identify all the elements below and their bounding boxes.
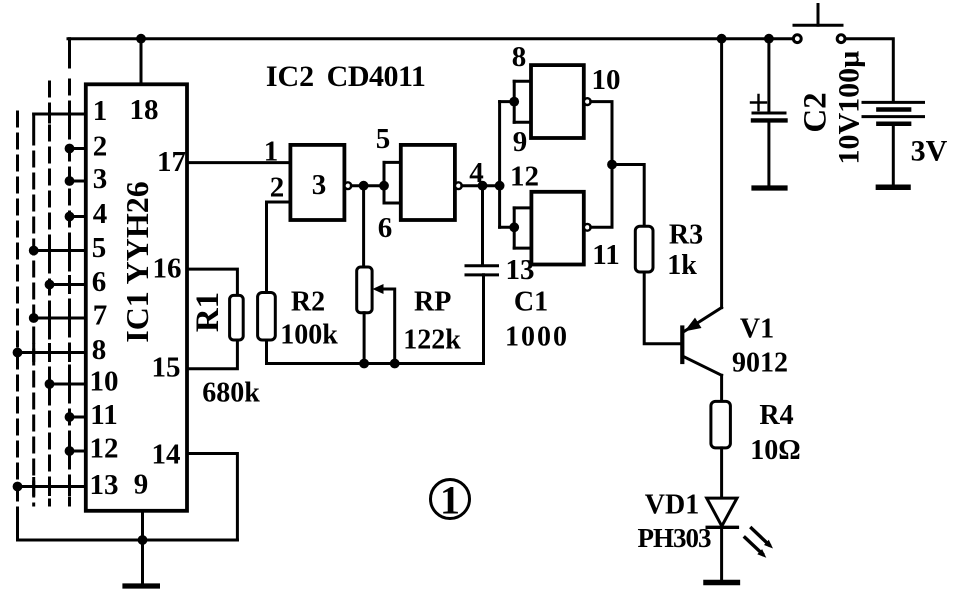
svg-text:10Ω: 10Ω [750,435,800,466]
wire pin7 [34,317,86,320]
transistor V1 base bar [680,328,684,363]
tick crossing pin8 line4 [68,345,71,361]
switch S actuator bar [794,24,842,27]
svg-text:15: 15 [152,352,181,384]
node pin8 tap [13,348,23,358]
gate U2B output bubble [455,182,462,189]
tick crossing pin13 line2 [32,479,35,495]
wire junction to R3 [612,165,644,227]
node pin3 tap [65,176,75,186]
svg-text:RP: RP [414,287,451,318]
ground symbol under battery [878,185,908,191]
capacitor C1 plate top [466,264,498,267]
wire U2B input stub 6 [384,202,401,205]
touch line 2 (dashed, x=33.7) [32,114,35,127]
node pin11 tap [65,412,75,422]
ground symbol under IC1 [141,540,144,583]
tick crossing pin7 line4 [68,310,71,326]
transistor V1 collector slant [683,357,721,376]
svg-text:1: 1 [264,136,279,168]
node pin13 tap [13,482,23,492]
svg-text:10V100µ: 10V100µ [833,51,866,165]
wire U2D input stub 12 [514,206,531,209]
node pin10 tap [45,379,55,389]
wire U2D input stub 13 [514,247,531,250]
wire U2B input stub 5 [384,161,401,164]
ground symbol under C2 [754,185,785,190]
node pin6 tap [45,280,55,290]
wire pin8 [18,351,86,354]
gate U2D output bubble [584,224,591,231]
svg-text:4: 4 [469,157,484,189]
wire pin5 [34,249,86,252]
wire RC network bottom [267,362,484,365]
ground symbol under LED [706,580,737,586]
svg-text:6: 6 [378,212,393,244]
wire U2C input stub 8 [514,80,531,83]
node U2C bracket junction [509,97,519,107]
wire pin10 [50,383,86,386]
svg-text:4: 4 [93,198,108,230]
tick crossing pin5 line3 [48,243,51,259]
svg-text:122k: 122k [403,325,461,356]
node C1 branch junction [478,181,488,191]
wire R4 to LED [720,448,723,498]
capacitor C1 top lead [481,186,484,266]
tick crossing pin1 line4 [68,106,71,122]
svg-text:9: 9 [513,126,528,158]
svg-text:11: 11 [90,399,117,431]
svg-text:13: 13 [506,254,535,286]
IC1 YYH26 body [86,84,187,511]
wire pin15 to R1 bottom [187,340,237,369]
svg-text:3: 3 [312,169,327,201]
svg-text:R4: R4 [759,400,793,431]
tick crossing pin8 line2 [32,345,35,361]
svg-text:13: 13 [90,469,119,501]
capacitor C1 plate bottom [466,273,498,276]
switch S contact right [837,35,845,43]
battery GB plate 1 long [863,101,924,104]
node U2B bracket junction [379,181,389,191]
wire pin6 [50,283,86,286]
touch line 4 (dashed, x=69.5 from rail) [68,39,71,67]
node ground junction [138,535,148,545]
svg-text:10: 10 [592,64,621,96]
svg-text:VD1: VD1 [645,490,699,521]
node net4 tee junction [495,181,505,191]
wire U2B input bracket [383,162,386,203]
svg-text:680k: 680k [202,378,260,409]
node RP bottom junction [359,359,369,369]
gate U2C body [531,65,584,138]
LED light arrow 1 [752,528,770,545]
capacitor C2 bottom lead [767,120,770,185]
node RP branch junction [359,181,369,191]
resistor R2 body [258,293,276,341]
svg-text:100k: 100k [280,320,338,351]
tick crossing pin1 line3 [48,106,51,122]
wire net4 vertical to gate C and D brackets [498,102,501,228]
wire pin18 to rail [140,39,143,85]
potentiometer RP body [357,267,372,313]
gate U2C output bubble [584,98,591,105]
wire U2D output pin 11 [591,165,612,228]
svg-text:18: 18 [130,94,159,126]
wire junction down to RP top [362,186,365,267]
wire pin3 [70,180,86,183]
svg-text:17: 17 [157,146,186,178]
svg-text:2: 2 [270,172,285,204]
node pin7 tap [29,313,39,323]
wire U2C input stub 9 [514,121,531,124]
RP wiper arrowhead [373,284,384,294]
svg-text:16: 16 [153,253,182,285]
wire pin14 to ground wire [187,454,237,541]
wire R3 to base [644,272,680,344]
wire net4 jog to U2C bracket [500,100,515,103]
svg-text:9: 9 [134,469,149,501]
svg-text:10: 10 [90,366,119,398]
wire U2B output (net 4) [462,184,500,187]
transistor V1 emitter lead from rail [720,39,723,308]
svg-text:IC1 YYH26: IC1 YYH26 [119,181,155,342]
svg-text:1000: 1000 [505,322,569,353]
tick crossing pin10 line4 [68,376,71,392]
svg-text:1: 1 [440,478,460,523]
svg-text:1: 1 [93,95,108,127]
wire pin2 [70,147,86,150]
wire R2 bottom to RC bottom wire [265,340,268,364]
wire U2A output to U2B input bracket [351,184,384,187]
svg-text:5: 5 [92,232,107,264]
capacitor C2 plate top [753,112,785,115]
resistor R4 body [711,401,731,448]
transistor V1 emitter arrowhead [685,318,702,332]
touch line 1 (dashed, x=17.5) [16,112,19,528]
wire pin1 [34,113,86,116]
svg-text:12: 12 [510,161,539,193]
wire pin4 [70,215,86,218]
wire pin11 [70,416,86,419]
wire pin17 to gate input 1 [187,161,290,164]
svg-text:R1: R1 [190,292,226,332]
wire pin13 [18,485,86,488]
wire top supply rail [68,37,794,40]
capacitor C2 polarity plus [751,95,766,110]
wire RP wiper [377,289,395,364]
capacitor C2 top lead [767,39,770,113]
LED light arrow 2 [745,538,763,555]
svg-text:1k: 1k [667,250,697,281]
wire rail right of switch to battery [845,39,893,101]
capacitor C2 plate bottom [753,118,786,122]
svg-text:9012: 9012 [732,348,788,379]
node pin18 junction on rail [136,34,146,44]
node pin2 tap [65,144,75,154]
svg-text:R3: R3 [669,220,703,251]
node gate outputs junction [607,160,617,170]
svg-text:C1: C1 [514,287,548,318]
resistor R1 body [230,295,244,340]
resistor R3 body [635,226,653,272]
wire pin12 [70,450,86,453]
gate U2D body [531,192,583,265]
tick crossing pin7 line3 [48,310,51,326]
tick crossing pin6 line4 [68,277,71,293]
node C2 branch junction on rail [764,34,774,44]
svg-text:R2: R2 [291,287,325,318]
node U2D bracket junction [509,222,519,232]
svg-text:11: 11 [592,239,619,271]
wire collector to R4 [720,375,723,401]
wire LED to ground [720,527,723,580]
node pin5 tap [29,246,39,256]
gate U2B body [401,145,455,220]
svg-text:3: 3 [93,163,108,195]
wire pin16 to R1 top [187,269,237,295]
battery GB plate 3 long [863,115,924,118]
battery GB plate 2 short [878,107,909,112]
wire touch line 1 to bottom ground wire [16,524,19,540]
svg-text:5: 5 [376,123,391,155]
wire U2A input 2 to R2 top [267,202,291,293]
svg-text:14: 14 [152,439,181,471]
wire U2D input bracket [513,208,516,248]
svg-text:6: 6 [92,266,107,298]
tick crossing pin5 line4 [68,243,71,259]
switch S contact left [793,35,801,43]
svg-text:12: 12 [90,433,119,465]
node emitter branch junction on rail [717,34,727,44]
node pin12 tap [65,446,75,456]
svg-text:7: 7 [93,300,108,332]
wire bottom ground wire [18,539,238,542]
tick crossing pin8 line3 [48,345,51,361]
svg-text:8: 8 [92,334,107,366]
LED VD1 triangle [707,498,737,526]
tick crossing pin13 line4 [68,479,71,495]
battery GB bottom lead [892,124,895,185]
gate U2A body [290,145,344,220]
svg-text:8: 8 [512,41,527,73]
touch line 3 (dashed, x=49.5) [48,82,51,505]
tick crossing pin13 line3 [48,479,51,495]
capacitor C1 bottom lead [482,275,485,364]
wire U2C output pin 10 [591,102,612,165]
wire net4 jog to U2D bracket [500,226,515,229]
svg-text:V1: V1 [740,314,774,345]
wire pin9 to ground wire [141,511,144,540]
wire U2C input bracket [513,81,516,122]
svg-text:2: 2 [93,131,108,163]
LED VD1 cathode bar [707,526,737,529]
node wiper bottom junction [390,359,400,369]
transistor V1 emitter slant [685,308,722,332]
figure number circle [431,480,470,519]
wire RP bottom [363,313,366,364]
node pin4 tap [65,212,75,222]
svg-text:CD4011: CD4011 [327,60,426,93]
svg-text:PH303: PH303 [638,523,711,553]
switch S actuator stem [817,5,820,26]
svg-text:IC2: IC2 [266,60,314,93]
svg-text:3V: 3V [911,135,948,168]
gate U2A output bubble [345,182,352,189]
battery GB plate 4 short [878,121,909,126]
svg-text:C2: C2 [798,92,834,132]
